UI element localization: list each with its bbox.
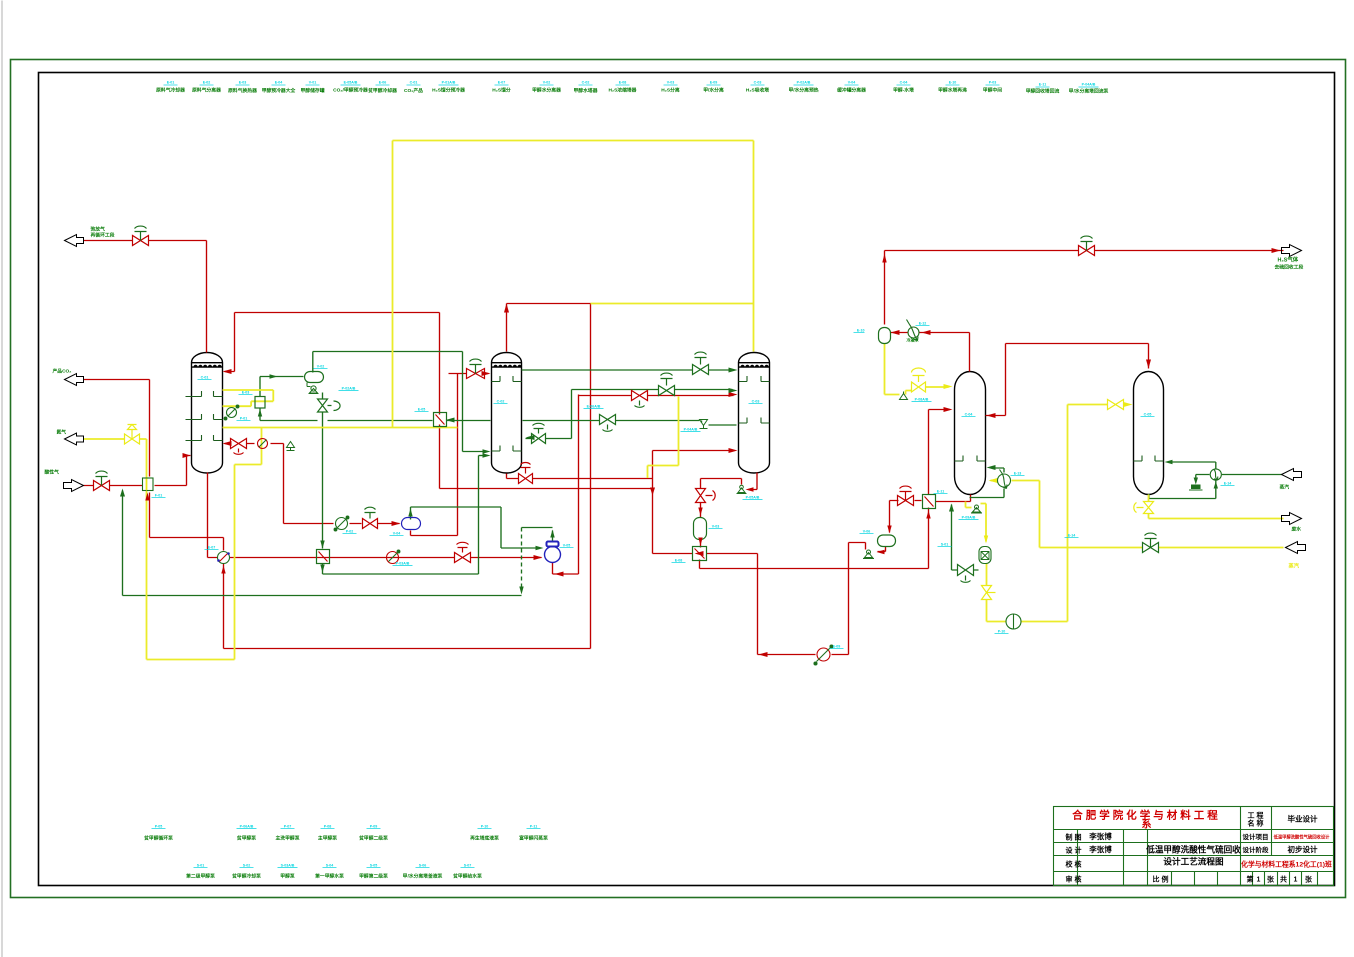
tag E-03	[239, 391, 253, 395]
pump on yellow y621	[1006, 614, 1021, 629]
exchanger E-07 circle	[217, 552, 230, 564]
svg-text:甲醇水塔再沸: 甲醇水塔再沸	[938, 87, 967, 94]
svg-text:1: 1	[1257, 877, 1261, 884]
valve green 3way x965	[958, 565, 974, 583]
tag E-09 pump	[830, 645, 844, 649]
valve red w/ actuator on purge line	[133, 226, 149, 245]
label E-04	[262, 81, 296, 95]
label E-07	[492, 81, 511, 94]
svg-text:1: 1	[1294, 877, 1298, 884]
svg-text:P-03: P-03	[989, 81, 997, 85]
arrow left into trap P-06	[877, 550, 885, 554]
svg-text:E-05: E-05	[418, 408, 426, 412]
svg-text:E-03: E-03	[239, 81, 247, 85]
arrow toward V-02	[270, 374, 278, 378]
wire long bottom y594	[123, 491, 522, 596]
svg-text:P-10: P-10	[998, 630, 1006, 634]
angle valve red x700	[696, 489, 716, 503]
drum V-04 blue	[402, 518, 421, 530]
wire T-05 bottom waste water	[1149, 495, 1284, 519]
svg-text:原料气分离器: 原料气分离器	[192, 87, 221, 94]
svg-text:缓冲罐分离器: 缓冲罐分离器	[837, 87, 866, 94]
wire long horizontal y488	[440, 488, 653, 490]
svg-text:设计工艺流程图: 设计工艺流程图	[1163, 856, 1224, 867]
valve yellow w/ actuator to T-04	[912, 368, 926, 392]
tag E-13 reboiler	[1011, 472, 1025, 476]
tag P-03b	[393, 562, 413, 566]
arrow nitrogen in	[65, 433, 84, 445]
label C-04	[893, 81, 914, 94]
tag E-06A/B mid	[584, 405, 604, 409]
wire to T-03 second	[572, 390, 733, 439]
svg-text:C-04: C-04	[900, 81, 908, 85]
pump P-01 circle	[224, 405, 239, 420]
svg-text:低温甲醇洗酸性气硫回收: 低温甲醇洗酸性气硫回收	[1145, 844, 1241, 855]
svg-text:甲醇中间: 甲醇中间	[983, 87, 1002, 94]
wire T-04 right exchanger	[970, 468, 1005, 498]
svg-text:设计阶段: 设计阶段	[1243, 845, 1270, 854]
tag E-07	[205, 546, 219, 550]
label P-05	[143, 825, 173, 842]
svg-text:H₂S气体: H₂S气体	[1278, 256, 1299, 264]
red arrowheads	[183, 248, 1281, 657]
arrow waste water out	[1282, 513, 1302, 525]
tag V-03 drum	[709, 525, 723, 529]
label E-06	[367, 81, 397, 95]
svg-text:系: 系	[1142, 818, 1152, 831]
filter with X near x984	[979, 547, 991, 564]
trays T-03	[739, 376, 770, 423]
exchanger on T-04 bottoms	[998, 470, 1011, 489]
wire V-07 drum to T-04 top	[885, 344, 949, 395]
arrow into T-03 lower	[729, 448, 738, 453]
arrow into T-02 lower-left	[483, 453, 491, 457]
arrow steam in bottom right	[1286, 542, 1306, 554]
arrow up x951	[949, 504, 954, 512]
wire acid gas feed	[84, 456, 191, 486]
label E-08	[609, 81, 637, 94]
trays T-05	[1134, 456, 1164, 462]
trays T-01	[186, 391, 223, 441]
wire nitrogen feed	[84, 428, 262, 660]
tag E-08	[672, 559, 686, 563]
svg-text:E-14: E-14	[1068, 534, 1076, 538]
tag T-01	[198, 376, 212, 380]
arrow up x259.5	[258, 409, 262, 417]
letdown E-08	[693, 547, 707, 561]
trays T-04	[955, 456, 986, 462]
svg-text:主甲醇泵: 主甲醇泵	[318, 835, 337, 842]
wire T-02 bottoms	[507, 474, 653, 479]
arrow left into E-12	[922, 330, 931, 335]
svg-text:初步设计: 初步设计	[1288, 844, 1318, 854]
svg-text:李张博: 李张博	[1088, 831, 1112, 841]
svg-text:P-08A/B: P-08A/B	[915, 398, 929, 402]
svg-text:E-08: E-08	[675, 559, 683, 563]
tag P-01	[237, 417, 251, 421]
svg-text:E-06: E-06	[379, 81, 387, 85]
wire y573.5	[323, 456, 479, 575]
wire x700 down through angle valve and drum	[700, 479, 702, 548]
column T-04	[955, 372, 986, 495]
valve red on T-01 reflux	[231, 439, 247, 455]
wire recycle to T-01 top	[225, 313, 440, 372]
svg-text:H₂S馏分预冷器: H₂S馏分预冷器	[432, 87, 465, 94]
svg-text:P-09A/B: P-09A/B	[962, 516, 976, 520]
tag V-07	[854, 329, 865, 333]
svg-text:甲醇预冷器大全: 甲醇预冷器大全	[262, 87, 296, 94]
valve red w/ actuator near V-06	[898, 486, 914, 505]
tag S-01 filter	[938, 543, 952, 547]
label E-11	[1026, 83, 1060, 95]
svg-text:校 核: 校 核	[1066, 860, 1082, 869]
drum V-06 horizontal	[878, 535, 896, 547]
svg-text:贫甲醇给水泵: 贫甲醇给水泵	[452, 873, 482, 880]
svg-text:共: 共	[1280, 875, 1287, 884]
label S-04	[315, 864, 344, 880]
svg-text:C-02: C-02	[582, 81, 590, 85]
wire V-07 to E-12	[891, 333, 970, 372]
label E-09	[703, 81, 724, 94]
tag E-14	[1221, 482, 1235, 486]
label C-03	[746, 81, 769, 94]
tag P-10 pump	[995, 630, 1009, 634]
label P-02A/B	[788, 81, 818, 94]
svg-text:甲醇水塔器: 甲醇水塔器	[574, 87, 598, 94]
label S-06	[403, 864, 443, 880]
wire x986 filter drain	[986, 564, 988, 622]
wire y537 to E-07	[150, 538, 224, 551]
svg-text:V-02: V-02	[317, 365, 324, 369]
drum V-02 reflux drum	[305, 372, 324, 383]
pump P-03 circle	[334, 516, 349, 531]
wire T-04 relief branch	[966, 502, 987, 542]
label E-10	[938, 81, 967, 94]
svg-text:P-11: P-11	[530, 825, 537, 829]
valve green w/ actuator second line	[659, 373, 675, 395]
tag E-12	[916, 322, 930, 326]
svg-text:氮气: 氮气	[57, 429, 67, 436]
label S-07	[452, 864, 482, 880]
svg-text:E-07: E-07	[498, 81, 506, 85]
label V-01	[301, 81, 325, 95]
svg-text:贫甲醇冷却泵: 贫甲醇冷却泵	[231, 873, 261, 880]
screen left edge line	[1, 1, 3, 957]
drum below T-03 vertical	[694, 518, 707, 540]
tag F-01	[152, 494, 166, 498]
tag P-06 blue pump	[560, 544, 574, 548]
wire x928 riser to T-04	[929, 410, 949, 569]
svg-text:H₂S分离: H₂S分离	[661, 87, 680, 94]
label S-02	[231, 864, 261, 880]
arrow down into condensate trap	[1194, 478, 1198, 485]
wire big top loop	[393, 141, 754, 428]
svg-text:贫甲醇循环泵: 贫甲醇循环泵	[143, 835, 173, 842]
svg-text:酸性气: 酸性气	[45, 469, 60, 476]
arrow purge gas out	[65, 235, 84, 247]
label E-05A/B	[333, 81, 368, 94]
arrow into T-01 bottom	[183, 453, 191, 458]
svg-text:P-10: P-10	[481, 825, 489, 829]
arrow y488 down at x652	[650, 488, 655, 496]
svg-text:V-03: V-03	[712, 525, 719, 529]
arrow into T-02	[482, 371, 491, 376]
svg-text:C-05: C-05	[1144, 413, 1152, 417]
label S-01	[186, 864, 215, 880]
valve yellow to T-05	[1108, 400, 1124, 410]
svg-text:P-02A/B: P-02A/B	[342, 387, 356, 391]
svg-text:P-07: P-07	[284, 825, 292, 829]
valve green w/ actuator on yellow y547	[1143, 533, 1159, 552]
svg-text:E-08: E-08	[619, 81, 627, 85]
wire V-04 drum top loop to pump	[411, 507, 540, 548]
svg-text:低温甲醇洗酸性气硫回收设计: 低温甲醇洗酸性气硫回收设计	[1273, 834, 1331, 841]
arrow up into E-14 circle	[1214, 482, 1218, 489]
svg-text:冷凝水: 冷凝水	[907, 337, 920, 343]
svg-text:毕业设计: 毕业设计	[1288, 814, 1318, 824]
arrow into blue pump	[534, 555, 543, 560]
valve green on T-02/T-03 line	[693, 352, 709, 374]
label V-04	[837, 81, 866, 94]
svg-text:P-01A/B: P-01A/B	[442, 81, 456, 85]
arrow into T-04 top	[944, 384, 953, 389]
wire valve to V-06 drum	[878, 501, 922, 552]
svg-text:S-05: S-05	[370, 864, 378, 868]
arrow left at pump discharge corner	[555, 572, 564, 577]
tag P-05A/B trap2	[743, 496, 763, 500]
valve red on V-04 line	[363, 507, 378, 528]
tag P-02 pump	[343, 530, 357, 534]
svg-text:李张博: 李张博	[1088, 844, 1112, 854]
svg-text:E-03: E-03	[242, 391, 250, 395]
wire bottom loop y654	[758, 543, 866, 655]
svg-text:C-01: C-01	[410, 81, 418, 85]
svg-text:E-02: E-02	[203, 81, 211, 85]
arrow H2S gas out	[1282, 245, 1302, 257]
svg-text:甲醇泵: 甲醇泵	[280, 873, 295, 880]
tag letdown T-04	[934, 490, 948, 494]
svg-text:H₂S浓缩塔器: H₂S浓缩塔器	[609, 87, 637, 94]
arrow up x122	[120, 489, 125, 497]
label C-01	[404, 81, 423, 95]
angle valve yellow T-05 bottom	[1134, 502, 1154, 514]
label S-03A/B	[278, 864, 298, 880]
svg-text:P-04A/B: P-04A/B	[684, 428, 698, 432]
arrow into T-02 side	[526, 435, 535, 440]
exchanger E-03 green box on yellow	[255, 397, 265, 409]
tag V-02	[314, 365, 328, 369]
svg-text:H₂S馏分: H₂S馏分	[492, 87, 511, 94]
label P-08	[318, 825, 337, 842]
wire CO2 product line	[84, 380, 150, 538]
arrow into T-04 right	[987, 465, 996, 470]
arrow into T-03 second	[729, 388, 738, 393]
svg-text:S-01: S-01	[197, 864, 205, 868]
svg-text:P-04A/B: P-04A/B	[1082, 83, 1096, 87]
wire V-02 bottom to valve	[313, 352, 323, 575]
svg-text:E-13: E-13	[1014, 472, 1022, 476]
svg-text:名 称: 名 称	[1248, 819, 1264, 828]
column T-03	[739, 353, 770, 474]
tag V-04	[390, 532, 404, 536]
wire T-04 bottoms	[936, 495, 971, 502]
tag P-04A/B trap	[681, 428, 701, 432]
svg-text:第: 第	[1247, 875, 1254, 884]
wire x1067 riser to T-05	[1068, 405, 1129, 622]
svg-text:富甲醇闪蒸泵: 富甲醇闪蒸泵	[519, 835, 548, 842]
arrow CO2 product out	[65, 374, 84, 386]
arrow into T-03 upper	[729, 368, 738, 373]
wire H2S overhead line top right	[885, 251, 1284, 325]
valve red on T-02 bottoms	[519, 462, 533, 483]
svg-text:甲醇第二级泵: 甲醇第二级泵	[359, 873, 388, 880]
arrow down x521	[519, 587, 523, 595]
trap P-06	[863, 550, 874, 559]
label V-03	[661, 81, 680, 94]
green arrowheads	[120, 368, 1173, 595]
arrow acid gas in	[64, 480, 84, 492]
svg-text:P-01: P-01	[240, 417, 248, 421]
svg-text:蒸汽: 蒸汽	[1279, 484, 1290, 491]
wire T-03 bottoms	[701, 473, 758, 490]
label V-02	[532, 81, 561, 94]
wire T-04 overhead to T-05	[986, 344, 1149, 416]
svg-text:V-04: V-04	[848, 81, 855, 85]
svg-text:第一甲醇水泵: 第一甲醇水泵	[315, 873, 344, 880]
arrow into T-01 side	[223, 441, 232, 446]
svg-text:H₂S吸收塔: H₂S吸收塔	[746, 87, 769, 94]
svg-text:比 例: 比 例	[1153, 875, 1169, 884]
svg-text:贫甲醇冷却器: 贫甲醇冷却器	[367, 87, 397, 94]
svg-text:制 图: 制 图	[1066, 833, 1082, 842]
svg-text:P-02: P-02	[346, 530, 354, 534]
wire T-01 overhead to T-02	[313, 352, 487, 452]
column T-02	[492, 353, 522, 474]
wire y621	[987, 621, 1068, 623]
label P-06A/B	[236, 825, 257, 842]
blue pump P-06 centrifugal	[545, 542, 561, 563]
valve yellow on x986	[982, 586, 996, 600]
arrow up under F-01	[145, 493, 149, 501]
column T-01 CO2 absorber	[192, 353, 223, 474]
wire y427 long	[223, 427, 458, 429]
steam trap under V-02	[307, 383, 319, 394]
svg-text:P-05: P-05	[155, 825, 163, 829]
svg-text:E-07: E-07	[208, 546, 216, 550]
svg-text:设计项目: 设计项目	[1243, 832, 1269, 841]
column internal trays (dark green brackets)	[186, 376, 1164, 461]
svg-text:甲醇-水塔: 甲醇-水塔	[893, 87, 914, 94]
svg-text:E-04: E-04	[275, 81, 283, 85]
svg-text:CO₂/甲醇预冷器: CO₂/甲醇预冷器	[333, 87, 368, 94]
svg-text:产品CO₂: 产品CO₂	[53, 368, 72, 375]
svg-text:P-09: P-09	[370, 825, 378, 829]
svg-text:E-09: E-09	[833, 645, 841, 649]
wire feed to T-02 with valve	[449, 374, 489, 536]
letdown near T-04	[923, 495, 936, 509]
wire feed to T-03 mid	[579, 395, 734, 397]
valve green on y419	[600, 415, 616, 432]
svg-text:E-10: E-10	[949, 81, 957, 85]
svg-text:C-03: C-03	[752, 400, 760, 404]
tag T-03	[749, 400, 763, 404]
column T-05	[1134, 372, 1164, 495]
arrow down into V-06	[887, 526, 891, 534]
wire T-02 lower-left entry	[479, 455, 487, 457]
svg-text:蒸汽: 蒸汽	[1288, 562, 1300, 570]
relief symbol right of P-02	[287, 442, 295, 451]
wire E-03 cluster	[223, 390, 274, 406]
svg-text:甲/水分离: 甲/水分离	[703, 87, 724, 94]
svg-text:再生塔底液泵: 再生塔底液泵	[470, 835, 499, 842]
svg-text:甲醇回收塔回流: 甲醇回收塔回流	[1026, 88, 1060, 95]
arrow up drum riser	[408, 509, 412, 517]
arrow left y654	[759, 652, 768, 657]
arrow right into pump left	[536, 546, 544, 550]
svg-text:化学与材料工程系12化工(1)班: 化学与材料工程系12化工(1)班	[1241, 860, 1332, 869]
arrow into T-05 top	[1146, 360, 1151, 369]
letdown on methanol line x322	[317, 550, 330, 564]
svg-text:甲醇储存罐: 甲醇储存罐	[301, 87, 325, 94]
svg-text:S-06: S-06	[419, 864, 427, 868]
arrow down into filter	[984, 536, 988, 544]
arrow into T-01 top	[223, 369, 232, 374]
svg-text:E-10: E-10	[857, 329, 865, 333]
filter F-01 on acid gas	[143, 478, 154, 491]
svg-text:工 程: 工 程	[1248, 811, 1264, 820]
wire long y568	[700, 560, 929, 569]
wire T-02 side draw	[526, 438, 572, 440]
arrow into letdown E-05	[446, 418, 455, 423]
label P-07	[276, 825, 300, 842]
wire long y419	[260, 421, 737, 426]
letdown E-05 on x439	[434, 413, 447, 427]
svg-text:F-01: F-01	[155, 494, 162, 498]
arrow into T-02 bottom	[483, 449, 491, 453]
exchanger E-12 circle	[907, 320, 920, 341]
globe valve green under V-02	[318, 399, 341, 412]
label E-01	[156, 81, 185, 94]
wire V-02 inlet	[260, 377, 304, 421]
svg-text:C-02: C-02	[497, 400, 505, 404]
tag T-02	[494, 400, 508, 404]
wire letdown E-08 cross	[653, 553, 758, 555]
wire E-13 exchanger line	[991, 481, 1067, 548]
trap P-08 on yellow jog	[900, 392, 908, 400]
label P-01A/B	[432, 81, 465, 94]
svg-text:P-03A/B: P-03A/B	[396, 562, 410, 566]
wire to V-04 drum	[284, 524, 458, 536]
condensate trap under E-14	[1189, 485, 1203, 490]
svg-text:C-01: C-01	[201, 376, 209, 380]
svg-text:V-06: V-06	[863, 530, 870, 534]
svg-text:去硫回收工段: 去硫回收工段	[1275, 264, 1304, 271]
label C-02	[574, 81, 598, 95]
arrow into V-04	[392, 521, 401, 526]
exchanger E-14 on T-05	[1210, 469, 1221, 480]
arrow into T-05 left	[1124, 402, 1133, 407]
arrow into T-04 right	[987, 413, 996, 418]
arrow steam in right	[1282, 469, 1302, 481]
valve red mid to T-03	[632, 391, 648, 408]
valve red w/ actuator on acid gas	[94, 471, 110, 490]
svg-text:贫甲醇二级泵: 贫甲醇二级泵	[358, 835, 388, 842]
svg-text:P-05A/B: P-05A/B	[746, 496, 760, 500]
svg-text:E-06A/B: E-06A/B	[587, 405, 601, 409]
wire x951 riser	[952, 505, 979, 571]
arrow left into trap P-05	[746, 487, 754, 491]
svg-text:C-03: C-03	[754, 81, 762, 85]
